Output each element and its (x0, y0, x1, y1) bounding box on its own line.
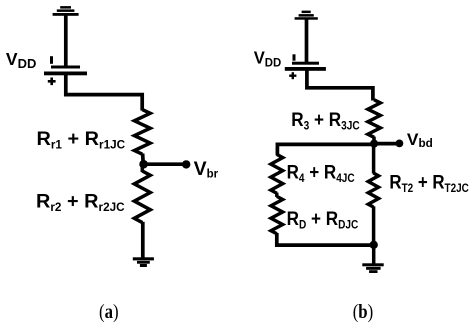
power rail symbol (inverted ground) for VDD, circuit (a) (53, 6, 79, 16)
label RT2 + RT2JC value (389, 171, 469, 195)
wire: power rail to battery top, circuit (a) (64, 16, 68, 67)
label Rr2 + Rr2JC value (36, 191, 125, 214)
caption (b) (353, 300, 374, 323)
battery V2 minus tick, circuit (b) (293, 54, 296, 60)
wire: Rr1 to node Vbr (141, 154, 145, 166)
ground symbol, circuit (a) (133, 257, 154, 267)
resistor RT2 + RT2JC zigzag (368, 173, 378, 207)
wire: node to Vbr terminal (144, 162, 185, 166)
label VDD, circuit (a) (6, 49, 36, 71)
label Vbr node name (194, 158, 219, 181)
terminal dot Vbd (396, 140, 404, 148)
resistor R4 + R4JC zigzag (271, 154, 283, 193)
resistor RD + RDJC zigzag (271, 196, 283, 233)
wire: R4 to RD (275, 193, 278, 197)
wire: Rr2 to ground, circuit (a) (141, 222, 145, 259)
wire: node Vbd down to RT2 (372, 144, 376, 174)
battery V1 bottom plate (positive), circuit (a) (44, 72, 87, 76)
wire: node Vbd left to parallel branch top corner (277, 144, 374, 155)
terminal dot Vbr (182, 160, 190, 168)
battery V2 bottom plate (positive), circuit (b) (285, 67, 326, 71)
svg-text:(a): (a) (99, 301, 119, 324)
label Vbd node name (407, 129, 433, 150)
label RD + RDJC value (287, 207, 359, 232)
label R4 + R4JC value (287, 160, 355, 185)
label VDD, circuit (b) (254, 48, 282, 69)
resistor Rr1 + Rr1JC zigzag (134, 110, 150, 155)
wire: battery to resistor R3, circuit (b) (307, 70, 373, 101)
ground symbol, circuit (b) (362, 263, 383, 273)
node junction dot at Vbr, circuit (a) (139, 160, 148, 169)
power rail symbol (inverted ground) for VDD, circuit (b) (295, 11, 318, 20)
resistor R3 + R3JC zigzag (368, 100, 381, 138)
wire: R3 to node Vbd (372, 137, 376, 144)
battery V1 minus tick, circuit (a) (50, 56, 53, 64)
battery V1 top plate (negative), circuit (a) (51, 66, 80, 69)
wire: node to Vbd terminal (374, 142, 398, 146)
wire: battery to resistor Rr1, circuit (a) (66, 75, 142, 111)
wire: RT2 to bottom node (372, 206, 376, 245)
caption (a) (99, 301, 119, 324)
label Rr1 + Rr1JC value (37, 128, 126, 151)
wire: bottom node to ground, circuit (b) (372, 245, 376, 265)
battery V1 plus sign, circuit (a) (48, 78, 56, 86)
battery V2 plus sign, circuit (b) (289, 72, 296, 79)
wire: power rail to battery, circuit (b) (305, 20, 309, 63)
node junction dot at Vbd (370, 140, 378, 148)
bottom node junction dot, circuit (b) (370, 241, 378, 249)
wire: RD down and right along bottom of parallel branch (277, 233, 374, 245)
battery V2 top plate (negative), circuit (b) (292, 62, 319, 65)
label R3 + R3JC value (291, 108, 360, 133)
resistor Rr2 + Rr2JC zigzag (134, 164, 150, 223)
svg-text:(b): (b) (353, 300, 374, 323)
